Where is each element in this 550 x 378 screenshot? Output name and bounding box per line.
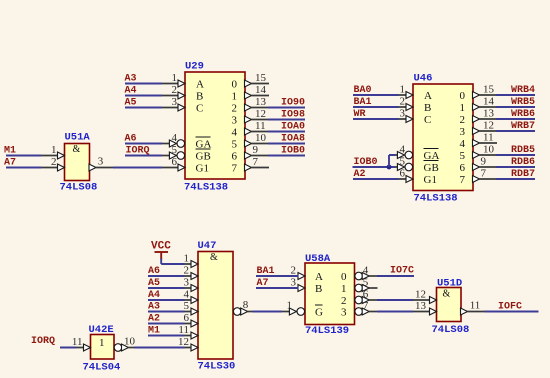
net label A3 [125,74,137,85]
svg-text:M1: M1 [148,326,160,337]
svg-text:1: 1 [184,253,190,265]
svg-text:15: 15 [483,84,495,96]
U47 pin 6 [174,312,198,327]
U29 pin 10 (output 5) [245,132,270,147]
U29 pin 14 (output 1) [245,84,270,99]
svg-text:IO90: IO90 [281,98,305,109]
svg-text:U29: U29 [185,61,204,73]
wire net WRB4 from U46 [496,94,535,96]
U46 pin 9 (output 6) [473,156,498,171]
wire net M1 to U47 [148,335,185,337]
decoder U58A 74LS139 body [305,253,355,337]
svg-text:6: 6 [363,289,369,301]
svg-text:A4: A4 [148,290,160,301]
wire net IO90 from U29 [268,107,305,109]
svg-text:IOB0: IOB0 [354,157,378,168]
net label BA0 [354,85,372,96]
U58A pin 4 (output 0) [355,265,378,280]
svg-text:10: 10 [124,336,136,348]
svg-text:9: 9 [481,156,487,168]
svg-text:B: B [196,91,203,103]
junction on IOB0 net [387,165,392,170]
svg-text:U47: U47 [198,240,217,252]
wire net M1 to U51A [6,155,42,157]
U29 pin 4 [161,132,185,147]
svg-text:U58A: U58A [305,253,331,265]
U47 pin 12 [174,336,198,351]
wire net A2 to U47 [148,323,185,325]
svg-text:BA1: BA1 [354,97,372,108]
wire net A4 to U29 [125,95,162,97]
wire net BA1 to U58A [256,275,299,277]
svg-text:A2: A2 [148,314,160,325]
U46 pin 6 [389,168,413,183]
svg-text:10: 10 [483,144,495,156]
wire net IOB0 to U46 GB [353,166,396,168]
svg-text:A: A [196,79,204,91]
net label A7 [4,158,16,169]
wire net WRB7 from U46 [496,130,535,132]
inverter U42E 74LS04 body [83,324,121,374]
U58A pin 1 (G enable) [281,300,305,316]
U51D pin 12 [413,289,437,304]
svg-text:14: 14 [255,84,267,96]
net label RDB6 [511,157,535,168]
svg-text:13: 13 [255,96,267,108]
svg-text:A: A [424,90,432,102]
U46 pin 2 [389,96,413,111]
net label IOFC [498,302,522,313]
net label IO90 [281,98,305,109]
wire VCC to U47 pin 1 [161,259,184,265]
wire U47 out to U58A G [253,311,283,313]
U29 pin 9 (output 6) [245,144,270,159]
svg-text:GB: GB [196,151,211,163]
wire net IOA8 from U29 [268,143,305,145]
wire net WRB5 from U46 [496,106,535,108]
svg-text:13: 13 [415,300,427,312]
svg-text:IORQ: IORQ [31,336,55,347]
U46 pin 3 [389,108,413,123]
wire net RDB5 from U46 [496,154,535,156]
svg-text:3: 3 [184,277,190,289]
net label A2 [354,169,366,180]
svg-text:4: 4 [400,144,406,156]
svg-text:IOA0: IOA0 [281,122,305,133]
svg-text:3: 3 [172,96,178,108]
and-gate U51A 74LS08 body [60,132,98,194]
svg-text:WRB6: WRB6 [511,109,535,120]
wire net IOFC from U51D [485,311,539,313]
wire net A3 to U47 [148,311,185,313]
svg-text:7: 7 [460,174,466,186]
wire net WRB6 from U46 [496,118,535,120]
svg-text:3: 3 [232,115,238,127]
net label A3 (U47 input) [148,302,160,313]
U46 pin 10 (output 5) [473,144,498,159]
U46 pin 1 [389,84,413,99]
U46 pin 14 (output 1) [473,96,498,111]
svg-text:6: 6 [460,162,466,174]
svg-text:74LS138: 74LS138 [414,193,458,205]
U46 pin 12 (output 3) [473,120,498,135]
svg-text:3: 3 [291,277,297,289]
U29 pin 11 (output 4) [245,120,270,135]
svg-text:U51A: U51A [65,132,91,144]
svg-text:11: 11 [470,300,481,312]
svg-text:1: 1 [99,337,105,349]
net label A2 (U47 input) [148,314,160,325]
U29 pin 2 [161,84,185,99]
net label M1 [4,146,16,157]
svg-text:5: 5 [363,277,369,289]
svg-text:11: 11 [483,132,494,144]
svg-text:74LS30: 74LS30 [198,361,236,373]
svg-text:RDB7: RDB7 [511,169,535,180]
U46 pin 4 [389,144,413,159]
svg-text:3: 3 [460,126,466,138]
U29 pin 15 (output 0) [245,72,270,87]
svg-text:WRB5: WRB5 [511,97,535,108]
svg-text:&: & [210,252,218,263]
net label A6 (U47 input) [148,266,160,277]
svg-text:WRB7: WRB7 [511,121,535,132]
svg-text:C: C [196,103,203,115]
U47 pin 2 [174,265,198,280]
svg-text:7: 7 [253,156,259,168]
net label WRB7 [511,121,535,132]
net label WRB6 [511,109,535,120]
net label BA1 (U58A input) [257,266,275,277]
U29 pin 13 (output 2) [245,96,270,111]
svg-text:1: 1 [232,91,238,103]
svg-text:3: 3 [400,108,406,120]
svg-text:11: 11 [255,120,266,132]
svg-text:1: 1 [172,72,178,84]
svg-text:5: 5 [172,144,178,156]
wire net A2 to U46 G1 [353,178,399,180]
svg-text:15: 15 [255,72,267,84]
svg-text:74LS08: 74LS08 [432,324,470,336]
svg-text:5: 5 [184,300,190,312]
svg-text:0: 0 [341,271,347,283]
svg-text:13: 13 [483,108,495,120]
U58A pin 2 [281,265,305,280]
power symbol VCC [151,241,171,260]
wire U51A out to U29 G1 [113,167,162,169]
net label RDB7 [511,169,535,180]
U47 pin 11 [174,324,198,339]
net label IO7C [390,266,414,277]
U46 pin 7 (output 7) [473,168,498,183]
svg-text:2: 2 [291,265,297,277]
U29 pin 7 (output 7) [245,156,270,171]
net label IO98 [281,110,305,121]
svg-text:1: 1 [460,102,466,114]
decoder U29 74LS138 body [184,61,245,194]
svg-text:A6: A6 [148,266,160,277]
U46 pin 5 [389,156,413,171]
wire net A7 to U58A [256,287,299,289]
svg-text:3: 3 [98,156,104,168]
svg-text:&: & [443,289,451,300]
net label A5 [125,98,137,109]
svg-text:2: 2 [184,265,190,277]
U51D pin 11 output [461,300,485,316]
wire net A4 to U47 [148,299,185,301]
net label WRB5 [511,97,535,108]
svg-text:6: 6 [172,156,178,168]
svg-text:2: 2 [51,156,57,168]
U47 pin 5 [174,300,198,315]
wire net IORQ to U42E [60,347,77,349]
svg-text:B: B [424,102,431,114]
svg-text:A5: A5 [125,98,137,109]
U47 pin 3 [174,277,198,292]
wire net IORQ to U29 GB [125,155,162,157]
svg-text:A7: A7 [257,278,269,289]
U58A pin 3 [281,277,305,292]
svg-text:2: 2 [341,295,347,307]
svg-text:74LS04: 74LS04 [83,362,121,374]
net label IOA0 [281,122,305,133]
svg-text:U42E: U42E [89,324,114,336]
U46 pin 15 (output 0) [473,84,498,99]
svg-text:6: 6 [232,151,238,163]
svg-text:5: 5 [232,139,238,151]
svg-text:4: 4 [363,265,369,277]
svg-text:74LS138: 74LS138 [184,182,228,194]
U47 pin 8 output [233,299,256,315]
net label A7 (U58A input) [257,278,269,289]
wire net A3 to U29 [125,83,162,85]
svg-text:5: 5 [400,156,406,168]
svg-text:A5: A5 [148,278,160,289]
nand-gate U47 74LS30 body [198,240,236,373]
svg-text:A: A [315,271,323,283]
svg-text:6: 6 [184,312,190,324]
svg-text:A2: A2 [354,169,366,180]
net label IORQ [126,146,150,157]
svg-text:IOFC: IOFC [498,302,522,313]
wire U42E out to U47 pin 12 [134,347,185,349]
U46 pin 13 (output 2) [473,108,498,123]
svg-text:14: 14 [483,96,495,108]
wire U58A out3 to U51D pin 13 [377,311,413,313]
wire net IO98 from U29 [268,119,305,121]
svg-text:&: & [73,144,81,155]
svg-text:RDB6: RDB6 [511,157,535,168]
svg-text:B: B [315,283,322,295]
svg-text:11: 11 [178,324,189,336]
svg-text:7: 7 [481,168,487,180]
svg-text:G: G [315,307,323,319]
svg-text:12: 12 [178,336,189,348]
and-gate U51D 74LS08 body [432,278,470,337]
svg-text:A7: A7 [4,158,16,169]
svg-text:IOA8: IOA8 [281,134,305,145]
svg-text:A4: A4 [125,86,137,97]
svg-text:0: 0 [460,90,466,102]
wire net A6 to U29 GA [125,143,162,145]
decoder U46 74LS138 body [413,73,473,205]
U29 pin 12 (output 3) [245,108,270,123]
wire net RDB6 from U46 [496,166,535,168]
U29 pin 5 [161,144,185,159]
U51A pin 3 output [89,156,113,172]
svg-text:BA0: BA0 [354,85,372,96]
svg-text:7: 7 [232,163,238,175]
svg-text:11: 11 [72,336,83,348]
svg-text:12: 12 [415,289,426,301]
svg-text:1: 1 [287,300,293,312]
wire net RDB7 from U46 [496,178,535,180]
svg-text:2: 2 [232,103,238,115]
svg-text:12: 12 [483,120,494,132]
svg-text:A6: A6 [125,134,137,145]
svg-text:2: 2 [460,114,466,126]
U51A pin 2 [41,156,65,171]
svg-text:G1: G1 [424,174,437,186]
svg-text:4: 4 [172,132,178,144]
U42E pin 11 input [67,336,91,351]
svg-text:G1: G1 [196,163,209,175]
wire U58A out2 to U51D pin 12 [377,299,413,301]
svg-text:BA1: BA1 [257,266,275,277]
svg-text:WR: WR [354,109,366,120]
net label A4 (U47 input) [148,290,160,301]
net label IORQ (U42E input) [31,336,55,347]
svg-text:A3: A3 [148,302,160,313]
svg-text:3: 3 [341,307,347,319]
net label BA1 [354,97,372,108]
net label M1 (U47 input) [148,326,160,337]
wire net BA1 to U46 [353,106,399,108]
svg-text:U46: U46 [414,73,433,85]
svg-text:4: 4 [232,127,238,139]
svg-text:M1: M1 [4,146,16,157]
svg-text:1: 1 [51,144,57,156]
svg-text:4: 4 [460,138,466,150]
svg-text:0: 0 [232,79,238,91]
svg-text:9: 9 [253,144,259,156]
svg-text:74LS139: 74LS139 [305,325,349,337]
svg-text:5: 5 [460,150,466,162]
svg-text:10: 10 [255,132,267,144]
wire net IO7C from U58A [377,275,414,277]
U51D pin 13 [413,300,437,315]
svg-text:1: 1 [341,283,347,295]
svg-text:6: 6 [400,168,406,180]
wire net WR to U46 [353,118,399,120]
svg-text:IORQ: IORQ [126,146,150,157]
wire net A5 to U29 [125,107,162,109]
U47 pin 1 [174,253,198,268]
net label A5 (U47 input) [148,278,160,289]
svg-text:RDB5: RDB5 [511,145,535,156]
svg-text:8: 8 [243,299,249,311]
wire net IOA0 from U29 [268,131,305,133]
net label IOA8 [281,134,305,145]
U58A pin 5 (output 1) [355,277,378,292]
net label A6 [125,134,137,145]
U29 pin 6 [161,156,185,171]
svg-text:IO98: IO98 [281,110,305,121]
U29 pin 3 [161,96,185,111]
U29 pin 1 [161,72,185,87]
svg-text:IOB0: IOB0 [281,146,305,157]
U58A pin 7 (output 3) [355,300,378,315]
wire IOB0 branch to U46 GA [389,155,396,167]
wire net BA0 to U46 [353,94,399,96]
net label WR [354,109,366,120]
svg-text:A3: A3 [125,74,137,85]
wire net A7 to U51A [6,167,42,169]
svg-text:IO7C: IO7C [390,266,414,277]
U51A pin 1 [41,144,65,159]
net label IOB0 [281,146,305,157]
svg-text:4: 4 [184,289,190,301]
U58A pin 6 (output 2) [355,289,378,304]
svg-text:GB: GB [424,162,439,174]
svg-text:2: 2 [172,84,178,96]
svg-text:C: C [424,114,431,126]
svg-text:2: 2 [400,96,406,108]
svg-text:12: 12 [255,108,266,120]
svg-text:VCC: VCC [151,241,171,253]
svg-text:WRB4: WRB4 [511,85,535,96]
wire net A5 to U47 [148,287,185,289]
U46 pin 11 (output 4) [473,132,498,147]
net label A4 [125,86,137,97]
wire net A6 to U47 [148,275,185,277]
svg-text:7: 7 [363,300,369,312]
U42E pin 10 output [114,336,135,352]
svg-text:1: 1 [400,84,406,96]
net label RDB5 [511,145,535,156]
net label WRB4 [511,85,535,96]
wire net IOB0 from U29 [268,155,305,157]
svg-text:74LS08: 74LS08 [60,182,98,194]
U47 pin 4 [174,289,198,304]
net label IOB0 [354,157,378,168]
